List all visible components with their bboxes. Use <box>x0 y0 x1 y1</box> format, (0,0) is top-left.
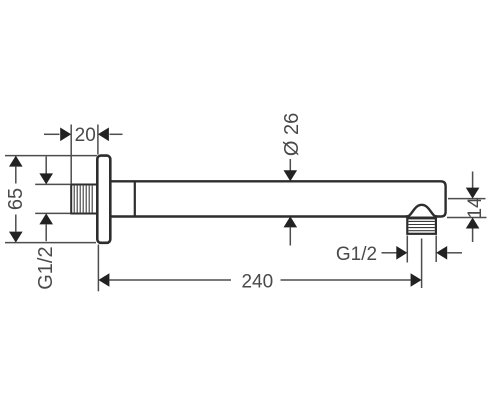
dimension G1/2 outlet: leader lines and arrows <box>382 246 463 260</box>
svg-text:20: 20 <box>75 125 96 146</box>
dimension 65: dimension line and arrows <box>9 156 23 243</box>
dimension G1/2 left nipple: leader lines and arrows <box>39 157 53 242</box>
dimension 20: extension lines <box>71 125 98 185</box>
outlet dome bump <box>406 205 437 217</box>
arm sleeve joint line <box>134 181 136 216</box>
dimension diameter 26: leader lines and arrows <box>284 159 298 246</box>
outlet thread G1/2 (hatched rect, bottom right) <box>407 218 436 234</box>
dimension 240: dimension line and arrows <box>98 273 421 287</box>
dimension 14: dimension line and arrows <box>466 172 480 243</box>
dimension G1/2 outlet: extension lines <box>407 236 436 263</box>
dimension 14: extension lines <box>447 199 487 218</box>
dimension 20: dimension line and arrows <box>44 128 123 142</box>
shower arm body <box>110 181 445 216</box>
escutcheon plate <box>97 156 110 243</box>
svg-text:240: 240 <box>241 271 273 292</box>
dimension 65: extension lines <box>5 156 97 243</box>
wall nipple thread G1/2 (hatched rect, left) <box>71 185 98 214</box>
svg-text:Ø 26: Ø 26 <box>281 113 303 156</box>
svg-text:14: 14 <box>465 197 486 219</box>
dimension G1/2 left nipple: extension lines <box>35 184 70 213</box>
svg-text:65: 65 <box>5 188 27 210</box>
dimension 240: extension lines <box>98 239 421 292</box>
svg-text:G1/2: G1/2 <box>35 246 57 289</box>
svg-text:G1/2: G1/2 <box>336 244 377 265</box>
